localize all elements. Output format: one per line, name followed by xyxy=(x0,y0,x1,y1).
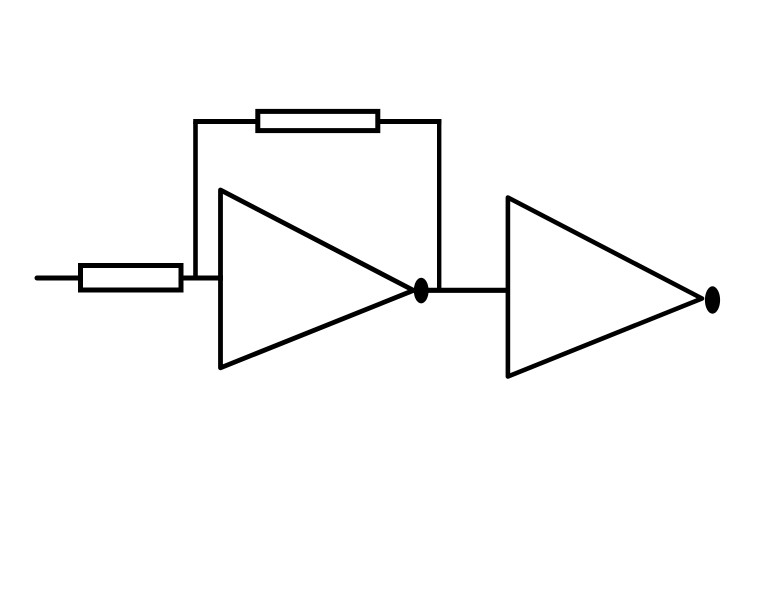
node output of U2 xyxy=(705,286,720,313)
wire feedback top left segment xyxy=(193,119,257,124)
wire feedback top right segment xyxy=(378,119,441,124)
wire from R1 to amplifier input xyxy=(181,276,223,281)
wire input left segment xyxy=(37,276,80,281)
wire feedback right vertical xyxy=(437,119,441,290)
op-amp U1 xyxy=(221,190,414,368)
op-amp U2 xyxy=(508,198,702,377)
resistor R2 xyxy=(258,111,378,130)
node output of U1 xyxy=(414,278,429,304)
wire from U1 output to U2 input xyxy=(428,288,510,293)
wire feedback left vertical xyxy=(193,122,198,279)
resistor R1 xyxy=(81,266,182,291)
